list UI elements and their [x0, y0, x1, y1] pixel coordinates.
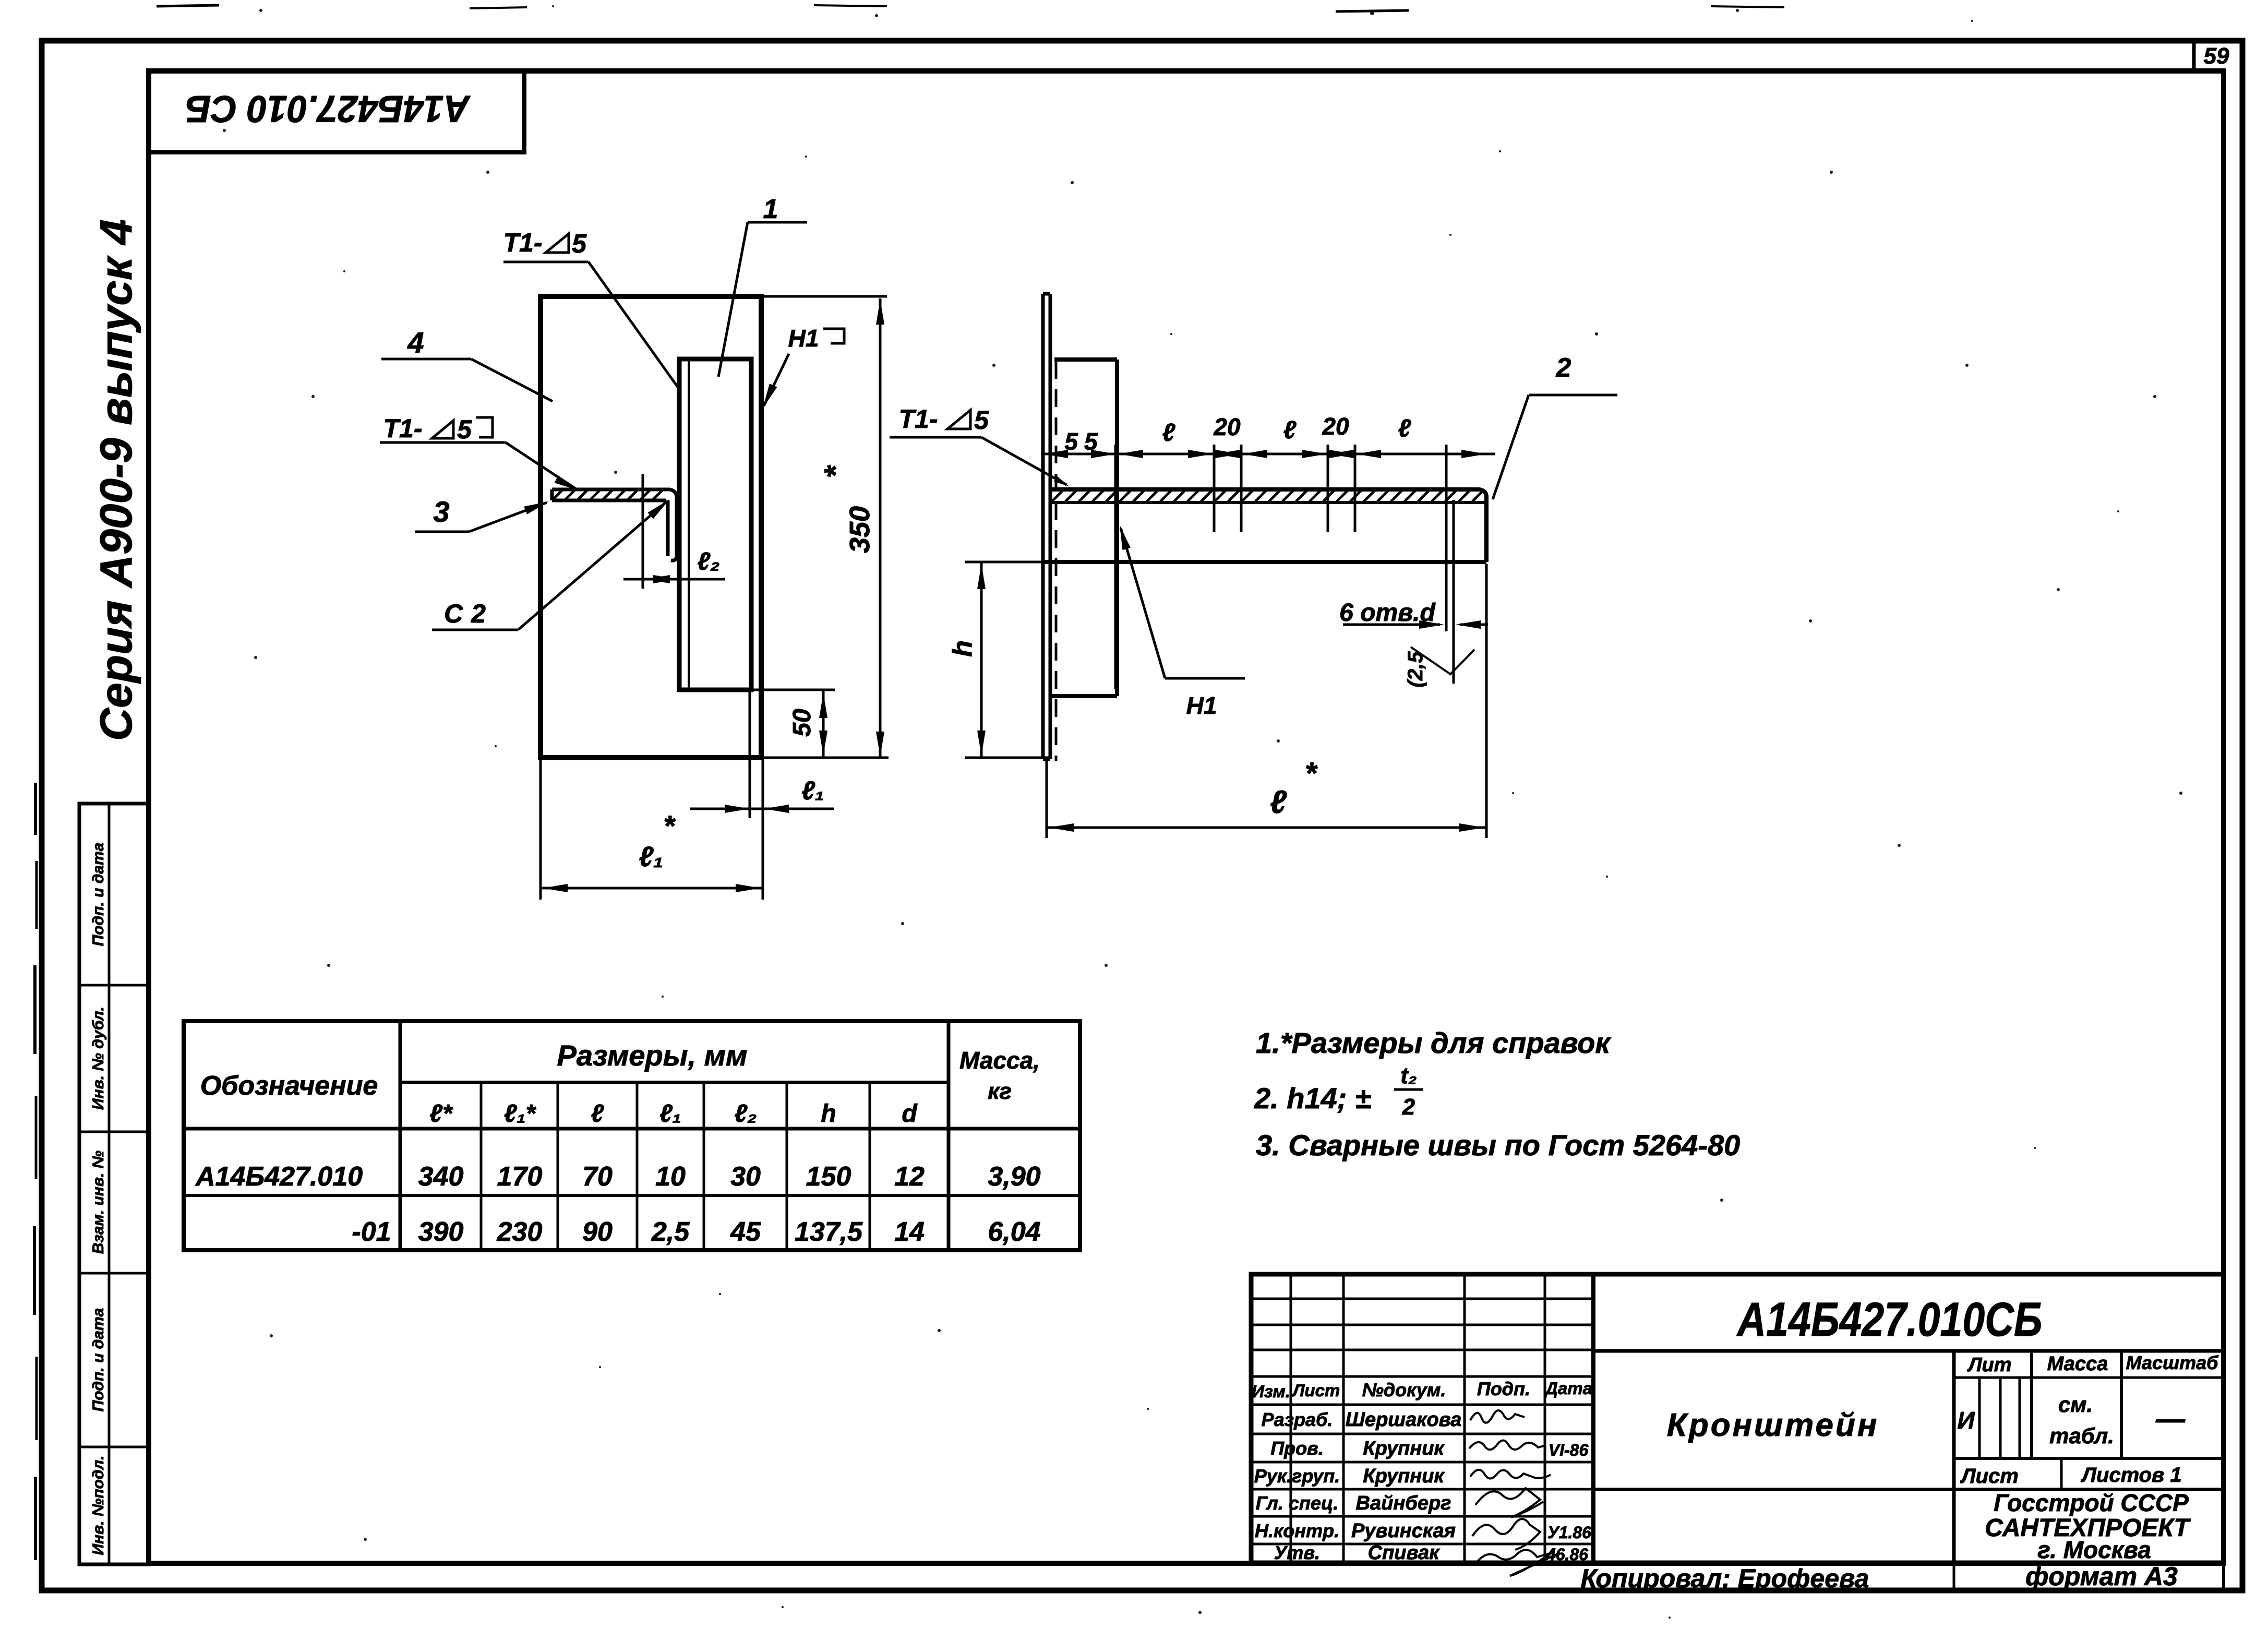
label H1 with flag (left view) [763, 325, 844, 408]
label H1 (right view) [1120, 525, 1245, 719]
svg-text:170: 170 [497, 1162, 543, 1192]
leader label 4 [381, 326, 553, 401]
svg-text:Рук.груп.: Рук.груп. [1254, 1465, 1340, 1487]
svg-text:1.*Размеры для справок: 1.*Размеры для справок [1256, 1026, 1611, 1059]
dimension table [184, 1021, 1080, 1250]
svg-text:И: И [1957, 1407, 1975, 1434]
arm bottom extension (h tick) [965, 561, 1043, 564]
svg-text:ℓ₂: ℓ₂ [734, 1100, 757, 1128]
stamp box A14B427.010 SB (rotated 180) [149, 71, 524, 152]
dimension h (right view) [947, 563, 1050, 758]
svg-text:А14Б427.010СБ: А14Б427.010СБ [1736, 1293, 2043, 1346]
svg-text:Н1: Н1 [788, 325, 819, 352]
svg-text:Подп. и дата: Подп. и дата [90, 843, 107, 947]
lit massa masshtab section [1593, 1351, 2224, 1563]
svg-text:Подп. и дата: Подп. и дата [90, 1308, 107, 1412]
svg-text:Обозначение: Обозначение [200, 1071, 378, 1101]
svg-text:Утв.: Утв. [1274, 1542, 1320, 1563]
svg-text:*: * [818, 465, 853, 478]
title block header row texts [1252, 1378, 1592, 1401]
dimension l2 (left view) [623, 474, 725, 589]
svg-text:Масштаб: Масштаб [2126, 1352, 2219, 1373]
leader label 2 [1493, 353, 1617, 499]
weld label C2 [432, 499, 669, 630]
svg-text:№докум.: №докум. [1362, 1379, 1446, 1400]
hole lines through arm [1115, 445, 1454, 689]
svg-text:14: 14 [894, 1217, 925, 1247]
svg-text:Разраб.: Разраб. [1262, 1409, 1333, 1430]
svg-text:Спивак: Спивак [1368, 1542, 1440, 1564]
dimension l1* (left view) [541, 760, 763, 900]
bent strap 3 with hatching [552, 489, 677, 560]
svg-text:70: 70 [582, 1162, 613, 1192]
svg-text:59: 59 [2204, 43, 2229, 69]
doc number band [1593, 1293, 2224, 1351]
svg-text:*: * [663, 809, 676, 842]
svg-text:ℓ: ℓ [591, 1100, 604, 1128]
svg-text:ℓ₁*: ℓ₁* [504, 1100, 537, 1128]
svg-text:ℓ₁: ℓ₁ [639, 841, 664, 872]
svg-text:Шершакова: Шершакова [1346, 1409, 1462, 1431]
svg-text:Т1-: Т1- [899, 404, 938, 434]
svg-text:20: 20 [1322, 413, 1349, 440]
svg-text:Н1: Н1 [1186, 692, 1217, 719]
svg-text:4: 4 [407, 326, 424, 359]
svg-text:2: 2 [1402, 1094, 1415, 1120]
svg-text:Т1-: Т1- [503, 228, 543, 257]
svg-text:Подп.: Подп. [1477, 1378, 1530, 1399]
vertical bar 1 (side view) [679, 359, 751, 690]
svg-text:Масса,: Масса, [959, 1047, 1040, 1074]
svg-text:ℓ₂: ℓ₂ [697, 548, 719, 576]
label 6 holes dia d [1339, 599, 1488, 629]
svg-text:табл.: табл. [2049, 1423, 2114, 1448]
svg-text:390: 390 [418, 1217, 464, 1247]
svg-text:30: 30 [730, 1162, 761, 1192]
svg-text:h: h [821, 1100, 836, 1128]
svg-text:кг: кг [988, 1079, 1012, 1104]
svg-text:Лит: Лит [1966, 1354, 2011, 1376]
svg-text:340: 340 [418, 1162, 464, 1192]
dimension L* (right view) [1047, 564, 1486, 838]
svg-text:Изм.: Изм. [1252, 1382, 1290, 1401]
svg-text:Инв. №подл.: Инв. №подл. [90, 1455, 107, 1555]
svg-text:5: 5 [572, 229, 587, 258]
copied by / format [1581, 1562, 2224, 1593]
svg-text:Н.контр.: Н.контр. [1255, 1520, 1339, 1541]
svg-text:Госстрой СССР: Госстрой СССР [1994, 1489, 2189, 1516]
note 1: sizes for reference [1256, 1026, 1611, 1059]
svg-text:Серия А900-9 выпуск 4: Серия А900-9 выпуск 4 [91, 219, 141, 741]
svg-text:Размеры, мм: Размеры, мм [557, 1039, 748, 1072]
svg-text:ℓ: ℓ [1398, 415, 1411, 442]
thickness mark (2,5) [1404, 647, 1474, 687]
svg-text:2. h14; ±: 2. h14; ± [1254, 1082, 1371, 1115]
svg-text:С2: С2 [444, 599, 494, 628]
wall plate 4 (side view rectangle) [541, 296, 761, 758]
svg-text:А14Б427.010: А14Б427.010 [195, 1162, 363, 1192]
svg-text:Лист: Лист [1292, 1381, 1340, 1400]
svg-text:20: 20 [1213, 413, 1241, 440]
svg-text:—: — [2155, 1402, 2186, 1435]
svg-text:Крупник: Крупник [1363, 1438, 1445, 1459]
svg-text:Листов 1: Листов 1 [2080, 1464, 2181, 1487]
svg-text:3,90: 3,90 [988, 1162, 1040, 1192]
svg-text:Пров.: Пров. [1270, 1438, 1324, 1459]
svg-text:230: 230 [497, 1217, 543, 1247]
svg-text:3: 3 [433, 495, 449, 528]
svg-text:46.86: 46.86 [1546, 1545, 1588, 1564]
svg-text:t₂: t₂ [1400, 1063, 1417, 1088]
svg-text:Масса: Масса [2047, 1353, 2108, 1375]
svg-text:Копировал: Ерофеева: Копировал: Ерофеева [1581, 1564, 1869, 1593]
dimension 350* (left view) [761, 296, 889, 758]
svg-text:Инв. № дубл.: Инв. № дубл. [90, 1007, 107, 1110]
svg-text:*: * [1305, 757, 1318, 791]
top chain dimension 55/l/20/l/20/l [1043, 413, 1495, 458]
dimension 50 (left view) [751, 690, 835, 757]
series handwritten label (vertical) [91, 219, 141, 741]
svg-text:6,04: 6,04 [988, 1217, 1040, 1247]
svg-text:Рувинская: Рувинская [1351, 1520, 1456, 1542]
svg-text:d: d [902, 1100, 918, 1128]
left margin stamp boxes [79, 804, 149, 1564]
horizontal arm 2 with hatched top flat [1043, 489, 1486, 562]
note 3: welds per GOST [1256, 1129, 1740, 1162]
svg-text:h: h [947, 640, 978, 657]
weld label T1-triangle5 (right view) [890, 404, 1069, 486]
weld label T1-triangle5 with flag (left view lower) [380, 414, 579, 490]
org name [1985, 1489, 2191, 1563]
svg-text:ℓ₁: ℓ₁ [801, 776, 824, 805]
svg-text:Вайнберг: Вайнберг [1356, 1492, 1451, 1514]
svg-text:см.: см. [2058, 1392, 2093, 1417]
scan edge shadow marks (left) [34, 783, 37, 1560]
svg-text:Крупник: Крупник [1363, 1465, 1445, 1487]
svg-text:ℓ*: ℓ* [429, 1100, 453, 1128]
vertical bar 1 (right view) [1050, 360, 1117, 696]
svg-text:Гл. спец.: Гл. спец. [1256, 1492, 1338, 1514]
scan top edge marks [157, 5, 1784, 11]
svg-text:Кронштейн: Кронштейн [1667, 1407, 1879, 1443]
page number box 59 [2194, 41, 2229, 71]
title block frame [1251, 1274, 2224, 1563]
leader label 1 [718, 194, 807, 377]
signatures (squiggles) [1469, 1410, 1560, 1576]
svg-text:55: 55 [1064, 428, 1103, 455]
svg-text:ℓ: ℓ [1270, 784, 1287, 820]
svg-text:Т1-: Т1- [383, 414, 423, 443]
svg-text:ℓ: ℓ [1162, 419, 1175, 447]
svg-text:формат А3: формат А3 [2025, 1562, 2178, 1591]
svg-text:12: 12 [894, 1162, 925, 1192]
svg-text:Лист: Лист [1960, 1465, 2019, 1488]
svg-text:2,5: 2,5 [651, 1217, 690, 1247]
svg-text:-01: -01 [352, 1217, 391, 1247]
svg-text:3. Сварные швы по Гост 5264-80: 3. Сварные швы по Гост 5264-80 [1256, 1129, 1740, 1162]
svg-text:45: 45 [730, 1217, 761, 1247]
svg-text:5: 5 [457, 415, 472, 444]
svg-text:У1.86: У1.86 [1547, 1523, 1591, 1542]
svg-text:50: 50 [788, 709, 816, 737]
svg-text:ℓ₁: ℓ₁ [659, 1100, 681, 1128]
dimension l1 (left view) [690, 692, 834, 900]
svg-text:90: 90 [582, 1217, 613, 1247]
svg-text:5: 5 [974, 405, 989, 435]
svg-text:VI-86: VI-86 [1549, 1441, 1589, 1459]
name of part [1667, 1407, 1879, 1443]
svg-text:Взам. инв. №: Взам. инв. № [90, 1151, 107, 1254]
svg-text:ℓ: ℓ [1283, 416, 1297, 444]
wall plate (edge view, right view) [1043, 294, 1050, 759]
svg-text:Дата: Дата [1544, 1379, 1592, 1398]
signature rows texts [1254, 1409, 1591, 1564]
svg-text:150: 150 [806, 1162, 851, 1192]
svg-text:А14Б427.010 СБ: А14Б427.010 СБ [185, 88, 471, 129]
svg-text:10: 10 [655, 1162, 686, 1192]
svg-text:137,5: 137,5 [795, 1217, 863, 1247]
weld label T1-triangle5 (left view upper) [503, 228, 680, 389]
hidden dashed line of plate [1055, 361, 1058, 761]
svg-text:1: 1 [763, 194, 778, 224]
svg-text:г. Москва: г. Москва [2037, 1536, 2151, 1563]
svg-text:2: 2 [1556, 353, 1571, 383]
svg-text:350: 350 [844, 506, 875, 553]
leader label 3 [415, 495, 549, 532]
note 2: h14 tolerance [1254, 1063, 1423, 1120]
